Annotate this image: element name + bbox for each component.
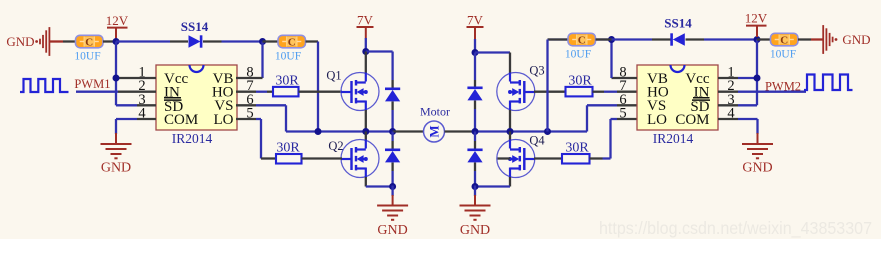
power 7V (right) <box>467 12 484 39</box>
wire 12V rail to D5 <box>116 40 170 42</box>
wire R3 to pin 7 (HO) <box>593 91 638 93</box>
svg-text:PWM2: PWM2 <box>765 80 801 94</box>
label 30R (R2) <box>276 141 300 156</box>
capacitor C3 <box>771 33 799 46</box>
label Motor <box>420 105 450 119</box>
label Q3 <box>529 64 544 78</box>
svg-text:IR2014: IR2014 <box>653 131 694 146</box>
diode D2 <box>385 150 400 163</box>
wire Q3 source stub <box>509 110 511 132</box>
lead C3 left <box>757 38 771 40</box>
wire pin 5 (LO) <box>236 119 276 159</box>
node Q4/D4 source junction <box>472 183 479 190</box>
pin 1 wire (Vcc) <box>116 77 156 79</box>
node phase D1/D2 junction <box>389 128 396 135</box>
overline SD (U2) <box>692 99 710 101</box>
diode D4 lead bottom <box>474 163 476 187</box>
underline IN (U2) <box>693 97 710 99</box>
svg-text:COM: COM <box>164 112 198 128</box>
diode D4 <box>467 150 482 163</box>
svg-text:10UF: 10UF <box>74 51 100 63</box>
diode D1 <box>385 89 400 102</box>
lead C1 to 12V node <box>103 40 116 42</box>
wire pin 1 (Vcc2) <box>718 77 757 79</box>
diode D2 lead bottom <box>391 163 393 187</box>
wire Q4 drain stub <box>509 132 511 142</box>
node phase D3/D4 junction <box>472 128 479 135</box>
wire D6 to 12V node <box>704 38 757 40</box>
wire GND port to C1 <box>50 40 76 42</box>
label 10UF (C1) <box>74 51 100 63</box>
svg-text:7V: 7V <box>357 12 374 27</box>
svg-text:GND: GND <box>101 161 131 176</box>
wire pin 8 (VB2) <box>612 40 638 79</box>
wire VB node down to pin8 <box>261 42 263 79</box>
svg-text:Q1: Q1 <box>326 69 341 83</box>
wire Q1 source stub <box>365 110 367 132</box>
wire Q2 source to D2 node <box>366 177 393 187</box>
node 7V-left junction <box>362 48 369 55</box>
wire R4 to pin 5 (LO) <box>590 119 638 159</box>
svg-text:30R: 30R <box>568 74 592 89</box>
wire D5 to VB node <box>222 40 263 42</box>
svg-text:GND: GND <box>460 223 490 238</box>
svg-text:SS14: SS14 <box>664 16 692 31</box>
diode D5 SS14 leads <box>170 40 222 42</box>
wire pin 6 (VS) <box>236 105 286 131</box>
power 12V (right) <box>745 11 768 38</box>
wire Q3 drain stub <box>509 53 511 74</box>
capacitor C1 <box>76 35 104 48</box>
motor lead right <box>445 130 476 132</box>
motor M1 <box>424 121 445 142</box>
label 30R (R4) <box>565 141 589 156</box>
wire pin 7 (HO) to R1 <box>236 91 273 93</box>
wire pin 3 (SD) <box>116 104 156 106</box>
svg-text:https://blog.csdn.net/weixin_4: https://blog.csdn.net/weixin_43853307 <box>599 218 872 239</box>
label Q1 <box>326 69 341 83</box>
lead C2 to VS column <box>306 40 319 42</box>
power 12V (left) <box>106 13 129 39</box>
wire R2 to Q2 gate <box>302 157 343 159</box>
power port GND (far right) <box>823 25 870 54</box>
diode D3 <box>467 88 482 101</box>
resistor R4 30R <box>562 154 590 164</box>
node pin1 junction (U2) <box>754 75 761 82</box>
wire 7V stub <box>365 38 367 52</box>
label 10UF (C3) <box>770 49 796 61</box>
node 12V-right junction <box>754 36 761 43</box>
diode D1 lead bottom <box>391 102 393 132</box>
wire Q4 source to D4 node <box>475 177 510 187</box>
node pin1 junction <box>113 75 120 82</box>
node 7V-right junction <box>472 49 479 56</box>
wire 7V to D1 branch <box>366 52 393 81</box>
svg-text:LO: LO <box>214 112 234 128</box>
lead C3 right <box>798 38 811 40</box>
wire rail C4 to VB node <box>548 38 612 40</box>
lead C4 left <box>548 38 569 40</box>
power port GND (far left) <box>6 27 49 56</box>
wire C3 to GND port <box>811 38 823 40</box>
wire pin 8 (VB) <box>236 77 263 79</box>
resistor R1 30R <box>273 87 299 97</box>
capacitor C4 (bootstrap right) <box>568 33 596 46</box>
svg-text:LO: LO <box>647 112 667 128</box>
node phase Q3/Q4 junction <box>507 128 514 135</box>
diode D3 lead top <box>474 53 476 88</box>
wire pin 4 (COM2) <box>718 119 758 144</box>
wire pin5 to R2 <box>0 0 1 1</box>
op-amp U2 IR2014 (right driver) <box>619 65 735 147</box>
wire C2 down to phase node <box>317 42 319 132</box>
label Q2 <box>328 139 343 153</box>
wire phase-right <box>475 130 587 132</box>
wire COM to ground <box>115 133 117 144</box>
node Q2/D2 source junction <box>389 183 396 190</box>
diode D5 SS14 <box>189 35 202 47</box>
motor lead left <box>393 130 424 132</box>
transistor Q2 <box>341 140 379 178</box>
label 30R (R3) <box>568 74 592 89</box>
diode D4 lead top <box>474 132 476 150</box>
ground GND (U2 COM) <box>742 144 773 176</box>
wire VS-right riser <box>587 105 637 131</box>
diode D2 lead top <box>391 132 393 150</box>
square wave PWM1 <box>20 79 69 92</box>
label 30R (R1) <box>275 74 299 89</box>
diode D3 lead bottom <box>474 101 476 132</box>
svg-text:5: 5 <box>619 106 626 122</box>
svg-text:GND: GND <box>6 34 34 49</box>
op-amp U1 IR2014 (left driver) <box>138 65 253 147</box>
node VB-left junction <box>259 38 266 45</box>
wire pin 3 (SD2) <box>718 104 757 106</box>
svg-text:COM: COM <box>675 112 709 128</box>
watermark <box>599 218 872 239</box>
wire Q2 drain stub <box>365 132 367 142</box>
diode D1 lead top <box>391 80 393 89</box>
svg-text:10UF: 10UF <box>565 49 591 61</box>
overline SD (U1) <box>164 99 182 101</box>
svg-text:Q3: Q3 <box>529 64 544 78</box>
ground GND (U1 COM) <box>101 144 132 176</box>
wire 12V bus right <box>756 40 758 106</box>
wire 7V to Q3 branch <box>475 51 510 53</box>
underline IN (U1) <box>164 97 181 99</box>
wire phase-left <box>286 130 393 132</box>
square wave PWM2 <box>804 75 853 91</box>
wire VB node to D6 <box>612 38 653 40</box>
transistor Q4 <box>497 140 535 178</box>
label 10UF (C4) <box>565 49 591 61</box>
wire Q3 gate to R3 <box>534 91 566 93</box>
wire pin 4 (COM) <box>116 119 156 134</box>
svg-text:M: M <box>427 125 442 137</box>
resistor R2 30R <box>276 154 302 164</box>
node phase VS junction <box>315 128 322 135</box>
wire 7V-right stub <box>474 39 476 53</box>
svg-text:10UF: 10UF <box>275 51 301 63</box>
svg-text:Q4: Q4 <box>529 134 545 148</box>
transistor Q3 <box>497 73 535 111</box>
svg-text:10UF: 10UF <box>770 49 796 61</box>
svg-text:C: C <box>288 37 296 49</box>
svg-text:GND: GND <box>377 223 407 238</box>
label 10UF (C2) <box>275 51 301 63</box>
svg-text:GND: GND <box>742 161 772 176</box>
label SS14 (right) <box>664 16 692 31</box>
wire pin 2 (IN2) PWM2 <box>718 91 806 93</box>
svg-text:30R: 30R <box>276 141 300 156</box>
svg-text:30R: 30R <box>275 74 299 89</box>
wire PWM1 to pin 2 (IN) <box>76 91 156 93</box>
wire to bridge ground right <box>474 186 476 206</box>
wire Q1 drain stub <box>365 52 367 74</box>
wire R1 to Q1 gate <box>299 91 343 93</box>
wire Q4 gate to R4 <box>498 157 563 159</box>
node phase Q1/Q2 junction <box>362 128 369 135</box>
wire to bridge ground left <box>391 186 393 206</box>
wire C4 down to phase node <box>546 40 548 132</box>
svg-text:Q2: Q2 <box>328 139 343 153</box>
svg-text:GND: GND <box>842 32 870 47</box>
svg-text:SS14: SS14 <box>181 19 209 34</box>
svg-text:12V: 12V <box>106 13 129 28</box>
diode D6 SS14 leads <box>652 38 704 40</box>
ground GND (left bridge) <box>377 206 408 239</box>
transistor Q1 <box>341 73 379 111</box>
capacitor C2 (bootstrap left) <box>278 35 306 48</box>
svg-text:C: C <box>85 37 93 49</box>
svg-text:IR2014: IR2014 <box>172 131 213 146</box>
svg-text:12V: 12V <box>745 11 768 26</box>
label PWM2 <box>765 80 801 94</box>
svg-text:C: C <box>780 35 788 47</box>
svg-text:PWM1: PWM1 <box>74 77 110 91</box>
lead C4 right <box>596 38 612 40</box>
label PWM1 <box>74 77 110 91</box>
svg-text:C: C <box>578 35 586 47</box>
label Q4 <box>529 134 545 148</box>
node 12V-left junction <box>113 38 120 45</box>
svg-text:30R: 30R <box>565 141 589 156</box>
node VB-right junction <box>608 36 615 43</box>
resistor R3 30R <box>566 87 593 97</box>
ground GND (right bridge) <box>460 206 491 239</box>
power 7V (left) <box>357 12 374 38</box>
wire 12V bus down to Vcc/SD <box>115 42 117 106</box>
diode D6 SS14 <box>672 33 685 45</box>
lead to C2 <box>263 40 279 42</box>
node phase C4 junction <box>544 128 551 135</box>
svg-text:7V: 7V <box>467 12 484 27</box>
label SS14 (left) <box>181 19 209 34</box>
svg-text:Motor: Motor <box>420 105 450 119</box>
